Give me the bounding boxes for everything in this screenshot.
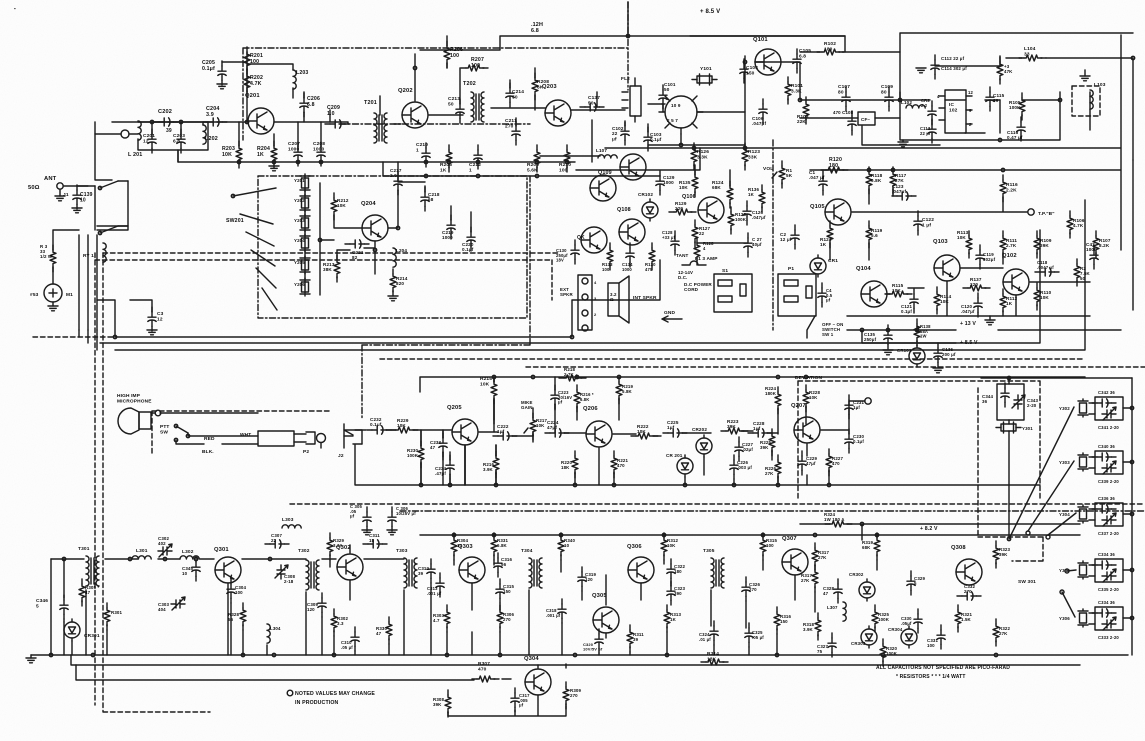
switch SW301 — [1007, 531, 1050, 585]
wire audio row — [355, 377, 865, 485]
wire bottom rail2 — [71, 655, 1080, 665]
transistor Q207 — [791, 403, 820, 443]
capacitor C328 — [823, 579, 842, 603]
transformer T303 — [396, 548, 417, 588]
svg-text:Y205: Y205 — [294, 260, 305, 265]
svg-text:Q206: Q206 — [583, 406, 598, 412]
capacitor C320 — [583, 629, 603, 653]
wire left verticals — [51, 559, 64, 655]
transistor Q305 — [592, 593, 619, 633]
resistor R213 — [323, 255, 340, 282]
ground M1 — [48, 302, 58, 311]
svg-text:Q203: Q203 — [542, 84, 557, 90]
capacitor C324 — [699, 621, 718, 645]
ic IC101 can — [659, 96, 703, 134]
svg-text:C324.01 μf: C324.01 μf — [699, 632, 711, 642]
capacitor C1 — [809, 170, 827, 195]
svg-text:L107: L107 — [596, 148, 607, 153]
svg-text:C342 36: C342 36 — [1098, 390, 1115, 395]
svg-text:T.P."B": T.P."B" — [1038, 211, 1055, 217]
svg-text:C1030.1μf: C1030.1μf — [650, 132, 662, 142]
svg-text:CR102: CR102 — [638, 192, 653, 197]
capacitor C233 — [430, 433, 447, 457]
capacitor C217 — [390, 168, 402, 195]
ic IC102 — [937, 90, 973, 133]
wire row1 bus1 — [178, 150, 575, 162]
svg-text:R224180K: R224180K — [765, 386, 777, 396]
capacitor C315 — [496, 579, 515, 603]
svg-text:+ 13 V: + 13 V — [960, 321, 976, 327]
capacitor C2 — [780, 225, 799, 249]
wire ry1 wiring — [53, 181, 152, 337]
svg-text:C325.05 μf: C325.05 μf — [752, 630, 764, 640]
capacitor C207 — [288, 141, 302, 166]
capacitor C126 — [743, 201, 766, 225]
svg-text:CR304: CR304 — [888, 627, 903, 632]
svg-text:C1341000: C1341000 — [622, 262, 633, 272]
svg-text:C334 36: C334 36 — [1098, 552, 1115, 557]
resistor R318 — [803, 613, 821, 640]
wire q row — [830, 190, 1090, 316]
svg-text:R105100K: R105100K — [1009, 100, 1021, 110]
wire y301 down — [981, 378, 1132, 537]
dash-dot crystal box — [258, 176, 527, 318]
wire bottom rail — [31, 654, 1128, 656]
capacitor C103 — [644, 127, 662, 151]
resistor R119 — [866, 221, 883, 248]
resistor R107 — [1093, 231, 1111, 258]
svg-text:+ 8.2 V: + 8.2 V — [920, 526, 938, 532]
meter M1 — [30, 284, 73, 302]
svg-text:CR101: CR101 — [897, 348, 912, 353]
svg-text:Q301: Q301 — [214, 547, 229, 553]
svg-text:Q102: Q102 — [1002, 253, 1017, 259]
resistor R115 — [885, 283, 912, 297]
dash-dot vol divider — [772, 140, 774, 330]
svg-text:Y202: Y202 — [294, 198, 305, 203]
resistor R322 — [993, 619, 1011, 646]
svg-text:SW201: SW201 — [226, 218, 244, 224]
svg-text:T201: T201 — [364, 100, 377, 106]
resistor R308 — [433, 690, 451, 717]
svg-text:L302: L302 — [182, 549, 194, 555]
svg-text:50Ω: 50Ω — [28, 185, 40, 191]
wire right column bus — [1131, 378, 1133, 655]
resistor R130 — [622, 243, 656, 272]
switch SW1 — [807, 316, 843, 338]
capacitor C231 — [845, 395, 865, 419]
wire left trunk dashed — [95, 253, 210, 712]
connector P1 — [778, 266, 816, 316]
resistor R106 — [1067, 211, 1085, 238]
svg-text:T202: T202 — [463, 81, 476, 87]
capacitor C106 — [752, 99, 767, 126]
capacitor C305 — [350, 504, 372, 535]
transformer T305 — [703, 548, 724, 588]
svg-text:* RESISTORS *: * RESISTORS * * * 1/4 WATT — [896, 674, 966, 680]
transistor Q204 — [361, 201, 388, 241]
svg-text:WHT: WHT — [240, 432, 251, 438]
crystal Y303 group — [1059, 444, 1134, 484]
svg-text:Q106: Q106 — [682, 194, 696, 200]
transistor Q206 — [583, 406, 612, 447]
resistor R214 — [388, 269, 408, 301]
resistor R328 — [228, 603, 246, 630]
svg-text:R3316.8K: R3316.8K — [497, 538, 509, 548]
capacitor C129 — [656, 171, 675, 195]
transistor Q304 — [524, 656, 551, 695]
wire right-top rails — [800, 52, 1060, 118]
svg-text:C2071000: C2071000 — [288, 141, 300, 152]
svg-text:J1: J1 — [63, 192, 69, 198]
svg-text:R1186.8K: R1186.8K — [871, 173, 883, 183]
resistor R312 — [661, 533, 679, 560]
capacitor C3 — [147, 307, 164, 335]
resistor R321 — [955, 605, 973, 632]
svg-text:R1013.3K: R1013.3K — [791, 83, 803, 94]
ext spkr jack — [560, 275, 597, 331]
capacitor C120 — [961, 293, 982, 317]
capacitor C4 — [818, 283, 833, 307]
wire tx bias rail — [420, 534, 1080, 536]
varcap C302 — [158, 536, 172, 557]
svg-text:T301: T301 — [78, 546, 90, 552]
svg-text:Y303: Y303 — [1059, 460, 1070, 465]
svg-text:L203: L203 — [296, 70, 308, 76]
capacitor C317 — [511, 688, 530, 712]
svg-text:Q302: Q302 — [336, 545, 351, 551]
svg-text:C135250μf: C135250μf — [864, 332, 877, 342]
svg-text:R1263.3K: R1263.3K — [697, 149, 709, 160]
transformer T304 — [521, 548, 542, 588]
svg-text:2 5 7: 2 5 7 — [667, 118, 678, 123]
capacitor C220 — [462, 227, 475, 252]
capacitor C128 — [662, 230, 679, 255]
resistor R216b — [574, 385, 594, 412]
diode CR304 — [888, 626, 917, 648]
capacitor C201 — [143, 129, 156, 153]
wire bottom rail3 — [76, 664, 566, 716]
capacitor C107 — [838, 84, 850, 111]
svg-text:C 2740μf: C 2740μf — [752, 237, 762, 247]
capacitor C123 — [892, 184, 916, 200]
resistor R221 — [611, 451, 629, 478]
resistor R229 — [391, 418, 418, 433]
svg-text:Q306: Q306 — [627, 544, 642, 550]
capacitor C137 — [580, 95, 604, 111]
capacitor C323 — [667, 581, 686, 605]
resistor R113 — [957, 230, 972, 258]
resistor R325 — [872, 605, 890, 632]
svg-text:R1112.7K: R1112.7K — [1006, 238, 1017, 248]
transformer T301 — [78, 546, 99, 586]
svg-text:MIKEGAIN: MIKEGAIN — [521, 400, 533, 410]
coil L201 — [128, 121, 142, 158]
resistor R340 — [558, 533, 576, 560]
capacitor C224 — [545, 420, 569, 437]
svg-text:L103: L103 — [1094, 82, 1106, 88]
svg-text:Y304: Y304 — [1059, 512, 1070, 517]
resistor R126 — [691, 143, 709, 170]
diode CR202 — [692, 427, 712, 457]
transistor Q103 — [933, 239, 960, 281]
svg-text:C333 2-20: C333 2-20 — [1098, 635, 1119, 640]
resistor R302 — [331, 609, 349, 636]
diode CR201 — [666, 453, 693, 477]
resistor R313 — [664, 605, 682, 632]
svg-text:T302: T302 — [298, 548, 310, 554]
svg-text:C2081000: C2081000 — [313, 141, 325, 152]
capacitor C209 — [325, 105, 349, 128]
svg-text:M1: M1 — [66, 292, 73, 298]
capacitor C112 — [916, 55, 967, 79]
svg-text:C234.47μf: C234.47μf — [435, 466, 447, 476]
resistor R136 — [748, 185, 765, 212]
capacitor C329 — [907, 571, 926, 595]
crystal Y301 — [996, 422, 1033, 433]
wire audio bot rail — [355, 445, 1040, 485]
svg-text:R230100K: R230100K — [407, 448, 419, 458]
transistor Q106 — [682, 194, 724, 223]
capacitor C115 — [986, 87, 1005, 111]
svg-text:R2182.7K: R2182.7K — [564, 367, 576, 377]
wire sw301 fan — [1009, 407, 1076, 617]
wire tx stage verticals — [64, 575, 815, 655]
relay RY1 — [79, 235, 106, 330]
svg-text:C335 2-20: C335 2-20 — [1098, 587, 1119, 592]
resistor R228 — [803, 385, 821, 412]
capacitor C346 — [36, 595, 68, 619]
wire dash mid right — [380, 359, 1145, 367]
resistor R331 — [491, 533, 509, 560]
svg-text:C202: C202 — [158, 109, 172, 115]
svg-text:L102: L102 — [901, 100, 912, 105]
svg-text:C337 2-20: C337 2-20 — [1098, 531, 1119, 536]
resistor R305 — [79, 579, 99, 606]
resistor R301 — [104, 603, 123, 630]
resistor R316 — [774, 607, 792, 634]
crystal Y302 group — [1059, 390, 1134, 430]
transistor Q108 — [617, 207, 645, 245]
capacitor C228 — [748, 421, 772, 437]
capacitor C229 — [798, 451, 818, 475]
svg-text:CF–: CF– — [861, 117, 870, 122]
resistor R137 — [963, 277, 990, 291]
capacitor C213 — [448, 96, 464, 123]
capacitor C113 — [920, 119, 936, 143]
capacitor C307 — [265, 533, 289, 548]
capacitor C116 — [1007, 117, 1025, 141]
resistor R212 — [331, 193, 349, 220]
coil L203 — [293, 70, 308, 89]
capacitor C219 — [442, 215, 455, 240]
coil L204 — [393, 248, 407, 267]
capacitor C203 — [173, 129, 185, 153]
svg-text:L301: L301 — [136, 548, 148, 554]
svg-text:Q305: Q305 — [592, 593, 607, 599]
svg-text:Q101: Q101 — [753, 37, 768, 43]
svg-text:+ 8.5 V: + 8.5 V — [700, 9, 720, 15]
svg-text:R301: R301 — [111, 610, 123, 615]
diode CR101 — [897, 345, 925, 367]
capacitor C101 — [659, 82, 676, 109]
resistor R124 — [712, 170, 733, 208]
capacitor C218 — [421, 187, 440, 211]
capacitor C117 — [1086, 242, 1098, 269]
svg-text:C1291000: C1291000 — [663, 175, 675, 185]
fuse F1 — [676, 253, 718, 280]
capacitor C318 — [546, 599, 566, 623]
speaker — [608, 276, 657, 323]
resistor R205 — [440, 145, 452, 173]
svg-text:Q202: Q202 — [398, 88, 413, 94]
svg-text:CR 201: CR 201 — [666, 453, 683, 458]
svg-text:C2191000: C2191000 — [442, 230, 454, 240]
wire sw201 fan — [233, 188, 277, 310]
resistor R114 — [934, 287, 952, 314]
mic plug P2 — [258, 431, 326, 455]
pot R217 — [521, 400, 548, 440]
resistor R317 — [812, 543, 830, 570]
dash-dot tx row top — [400, 510, 1145, 512]
crystal Y306 group — [1059, 600, 1134, 640]
resistor R204 — [257, 141, 279, 171]
svg-text:Q303: Q303 — [458, 544, 473, 550]
svg-text:L202: L202 — [205, 136, 218, 142]
ground q102 — [985, 316, 995, 325]
resistor R202 — [244, 69, 263, 96]
svg-text:CR301: CR301 — [84, 633, 100, 639]
capacitor C205 — [202, 60, 247, 89]
capacitor C211 — [505, 118, 520, 145]
wire bus C — [115, 200, 1085, 350]
dash-dot IF box — [362, 176, 530, 420]
resistor R110 — [1034, 283, 1052, 310]
resistor R125 — [728, 207, 747, 234]
capacitor C127 — [694, 233, 762, 265]
capacitor C118 — [1035, 260, 1059, 276]
crystal Y204 — [294, 234, 310, 252]
svg-text:L307: L307 — [827, 605, 838, 610]
svg-text:T304: T304 — [521, 548, 533, 554]
svg-text:R1078.2K: R1078.2K — [1099, 238, 1111, 248]
svg-text:F1 3 AMP: F1 3 AMP — [695, 256, 718, 262]
resistor R102 — [817, 41, 844, 55]
svg-text:S1: S1 — [722, 268, 728, 274]
svg-text:Q308: Q308 — [951, 545, 966, 551]
svg-text:BLK.: BLK. — [202, 449, 214, 455]
capacitor C222 — [493, 424, 517, 440]
wire row1 verticals — [239, 36, 597, 162]
svg-text:SW 301: SW 301 — [1018, 579, 1036, 585]
svg-text:R1064.7K: R1064.7K — [1073, 218, 1085, 228]
svg-text:P1: P1 — [788, 266, 794, 272]
pot R1 VOL — [763, 161, 793, 188]
resistor R226 — [765, 455, 781, 482]
wire bus A — [115, 260, 660, 337]
transistor Q202 — [398, 88, 428, 128]
resistor R123 — [742, 143, 760, 170]
resistor R210 — [559, 145, 571, 173]
resistor R120 — [821, 157, 848, 173]
coil L107 — [596, 148, 617, 158]
resistor R138 — [914, 319, 931, 346]
capacitor C332 — [957, 584, 981, 600]
capacitor C304 — [227, 579, 247, 603]
dashed sw301 area — [978, 388, 1043, 561]
svg-text:R320100K: R320100K — [886, 646, 898, 656]
svg-text:L304: L304 — [270, 626, 281, 631]
wire row1 bus2 — [383, 162, 660, 176]
resistor R129 — [669, 201, 696, 215]
capacitor C331 — [927, 625, 945, 649]
resistor R323 — [993, 541, 1011, 568]
svg-text:J2: J2 — [338, 453, 344, 459]
resistor R314 — [701, 651, 728, 665]
svg-text:R2024.7K: R2024.7K — [250, 75, 263, 87]
svg-text:470 C108: 470 C108 — [833, 110, 854, 115]
capacitor C108 — [833, 110, 856, 135]
wire tx top rail — [51, 558, 404, 560]
svg-text:▪: ▪ — [14, 6, 16, 11]
svg-text:FL2: FL2 — [621, 76, 630, 82]
wire 82 rail — [800, 524, 1080, 540]
microphone — [118, 408, 161, 434]
svg-text:Q105: Q105 — [810, 204, 825, 210]
svg-text:R325100K: R325100K — [878, 612, 890, 622]
capacitor C330 — [901, 609, 922, 633]
switch PTT — [160, 424, 188, 442]
resistor R220 — [561, 451, 578, 478]
capacitor C109 — [881, 84, 893, 111]
svg-text:C2320.1μf: C2320.1μf — [370, 417, 382, 427]
svg-text:Y301: Y301 — [1022, 426, 1033, 431]
wire bus B — [100, 230, 1040, 343]
svg-text:C341 2-20: C341 2-20 — [1098, 425, 1119, 430]
svg-text:R3183.9K: R3183.9K — [803, 622, 815, 632]
svg-text:Y203: Y203 — [294, 218, 305, 223]
ground topright — [1080, 70, 1090, 81]
transistor Q301 — [214, 547, 241, 583]
crystal Y304 group — [1059, 496, 1134, 536]
resistor R203 — [222, 141, 242, 168]
svg-text:C310.05 μf: C310.05 μf — [341, 640, 353, 650]
svg-text:Q103: Q103 — [933, 239, 948, 245]
resistor R104 — [997, 57, 1013, 84]
wire tx stage verticals2 — [306, 545, 877, 655]
svg-text:39: 39 — [166, 128, 172, 134]
transistor Q205 — [447, 405, 478, 445]
transistor Q105 — [810, 199, 851, 225]
svg-text:Y206: Y206 — [294, 282, 305, 287]
svg-text:C2300.1μf: C2300.1μf — [853, 434, 865, 444]
diode CR302 — [849, 572, 875, 601]
resistor R317b — [801, 565, 818, 592]
coil L307 — [827, 602, 846, 621]
svg-text:R15K: R15K — [786, 168, 793, 178]
resistor R330 — [376, 617, 392, 644]
resistor R118 — [866, 167, 883, 194]
resistor R230 — [407, 441, 424, 468]
svg-text:Y306: Y306 — [1059, 616, 1070, 621]
svg-text:L204: L204 — [396, 248, 407, 253]
capacitor C310 — [341, 627, 359, 651]
wire antenna feed — [64, 122, 112, 230]
capacitor C309 — [307, 593, 326, 617]
crystal Y101 — [692, 66, 717, 85]
transistor Q306 — [627, 544, 654, 583]
coil L301 — [132, 548, 151, 559]
